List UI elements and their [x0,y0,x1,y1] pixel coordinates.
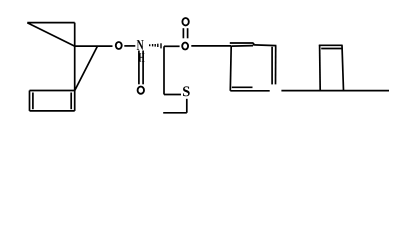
bond C2-O2 [164,45,180,47]
chain bond ring1-ring2 long line [281,90,389,92]
atom H on N [139,53,145,61]
N=O double bond line 2 [142,51,144,85]
cyclobutene rect top edge [30,90,75,92]
cyclobutene rect bottom edge [30,110,75,112]
atom O4 nitroso [138,87,144,94]
bond C3-S [164,94,181,96]
cyclobutene inner double bond left [32,93,34,110]
bond O1-N [124,45,135,47]
ring1 right edge inner double [271,47,273,85]
ring1 top edge lower line [231,45,253,48]
ring2 right edge [342,45,344,90]
hash wedge N-C2 [150,43,161,48]
bicyclic top edge A-B [27,22,74,24]
bond O2-ring1 [191,45,231,47]
ring2 left edge [319,45,322,90]
bond C4-C5 ethyl end [163,112,187,114]
ring2 top inner double [321,48,341,50]
ring1 bottom edge [230,90,269,92]
bond S-C4 vertical [186,99,188,113]
bond C2-C3 vertical [163,46,165,94]
ring1 top edge M-TR [254,44,276,47]
ring1 top double bond upper line [230,42,254,44]
atom S [183,86,190,96]
ring1 left edge [229,46,232,91]
atom O3 carbonyl [182,18,188,25]
atom O2 ester [182,43,188,50]
N=O double bond line 1 [138,51,140,85]
bicyclic diagonal E-F [75,46,98,90]
bond C-O1 horizontal [75,45,113,47]
cyclobutene inner double bond right [70,93,72,110]
ring1 right edge outer [275,46,277,85]
ring2 top edge [319,44,343,46]
atom N [137,40,144,50]
ring1 bottom inner double [232,86,253,88]
atom O1 [116,42,122,49]
ring1 top joint connector [253,43,255,46]
bicyclic vertical C-F to rect [74,46,76,111]
cyclobutene rect left edge [29,91,31,111]
bicyclic diagonal A-C [27,23,74,46]
C=O double bond line 2 [187,28,189,38]
C=O double bond line 1 [182,28,184,38]
bicyclic vertical B-C [74,23,76,46]
